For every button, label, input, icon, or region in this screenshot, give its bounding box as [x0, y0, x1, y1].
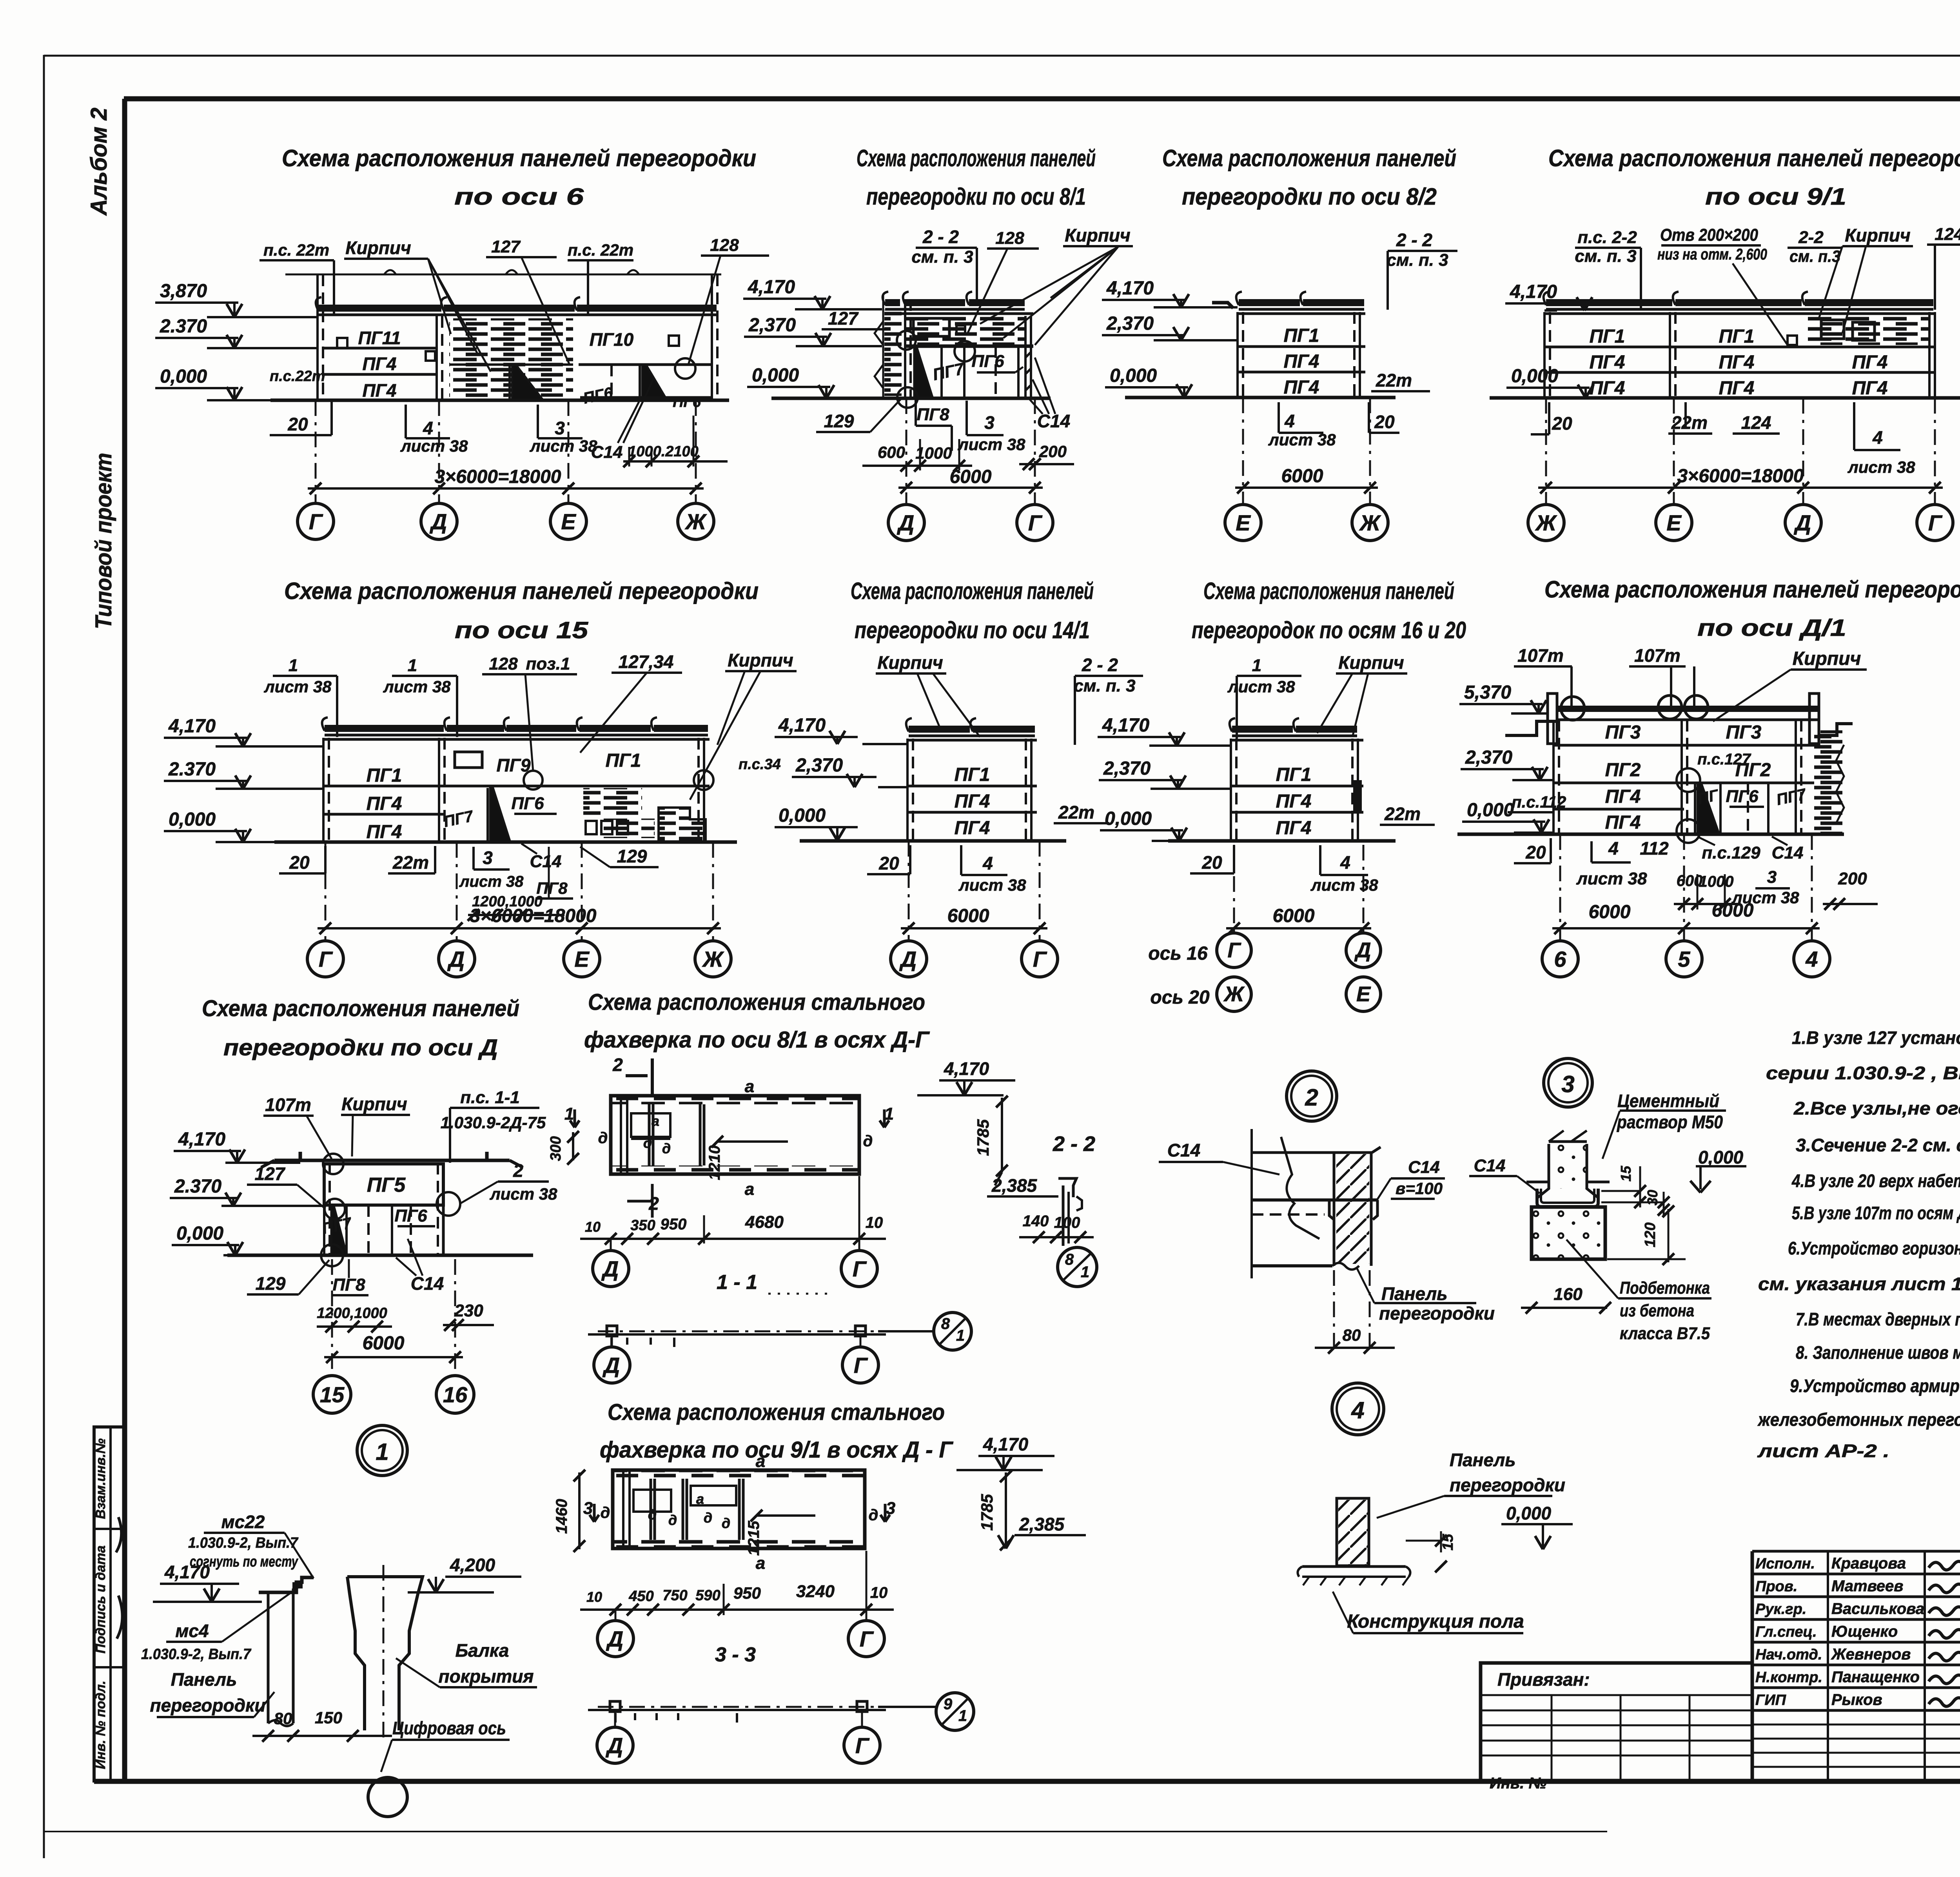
- svg-text:Василькова: Василькова: [1831, 1600, 1924, 1617]
- svg-text:6000: 6000: [1281, 466, 1323, 486]
- S12 axis circle 8/1 (bar): [878, 1312, 971, 1350]
- svg-text:107т: 107т: [1517, 645, 1564, 666]
- svg-text:Панащенко: Панащенко: [1831, 1668, 1920, 1686]
- svg-text:перегородки: перегородки: [1450, 1475, 1565, 1495]
- svg-text:Г: Г: [1028, 510, 1043, 535]
- svg-text:7.В местах дверных проемов по: 7.В местах дверных проемов полки швелера…: [1796, 1309, 1960, 1329]
- S4 wall elevation: [1544, 292, 1935, 399]
- detail 3 drawing (channel on foundation): [1526, 1131, 1610, 1259]
- svg-text:покрытия: покрытия: [439, 1666, 534, 1686]
- svg-text:ПГ4: ПГ4: [363, 354, 397, 374]
- svg-text:80: 80: [1343, 1326, 1361, 1344]
- svg-text:перегородки по оси 8/2: перегородки по оси 8/2: [1182, 183, 1437, 210]
- S3 axis circle Ж: [1352, 398, 1388, 541]
- svg-text:ПГ4: ПГ4: [1852, 378, 1888, 399]
- svg-text:Кирпич: Кирпич: [345, 238, 411, 258]
- schematic S8 title (по осям 16 и 20): [1192, 578, 1466, 643]
- svg-text:ПГ4: ПГ4: [1284, 351, 1319, 372]
- svg-text:2,370: 2,370: [748, 315, 796, 336]
- svg-text:ПГ4: ПГ4: [1852, 352, 1888, 373]
- svg-text:ПГ3: ПГ3: [1605, 722, 1641, 743]
- svg-text:ПГ8: ПГ8: [916, 405, 949, 424]
- svg-text:Д: Д: [606, 1733, 623, 1758]
- beam detail label Цифровая ось: [381, 1718, 510, 1772]
- svg-text:Панель: Панель: [171, 1669, 237, 1690]
- svg-text:Подпись и дата: Подпись и дата: [93, 1545, 108, 1654]
- svg-text:перегородки по оси 14/1: перегородки по оси 14/1: [855, 617, 1090, 643]
- beam detail labels мс22: [188, 1512, 314, 1578]
- S13 right levels 4,170 1785 2,385: [956, 1434, 1086, 1550]
- svg-text:6000: 6000: [947, 906, 989, 926]
- svg-text:1 - 1: 1 - 1: [717, 1271, 757, 1294]
- svg-text:класса В7.5: класса В7.5: [1620, 1324, 1710, 1343]
- svg-text:Схема расположения панелей пер: Схема расположения панелей перегородки: [282, 145, 756, 171]
- schematic S9 title (по оси Д/1): [1544, 576, 1960, 641]
- S2 ground line: [771, 397, 1051, 400]
- S8 axis row ось 16: [1148, 845, 1381, 968]
- svg-text:ПГ4: ПГ4: [367, 822, 402, 842]
- schematic S6 title (по оси 15): [284, 578, 759, 643]
- svg-text:4: 4: [1872, 427, 1883, 448]
- svg-text:2 - 2: 2 - 2: [1082, 655, 1118, 675]
- S3 level marks: [1102, 278, 1238, 398]
- svg-text:590: 590: [695, 1587, 720, 1604]
- svg-text:20: 20: [1525, 842, 1546, 862]
- S2 label 127 with line: [822, 308, 887, 329]
- S9 label п.с.112: [1508, 793, 1566, 812]
- svg-text:4.В узле 20 верх набетонки: 4.В узле 20 верх набетонки на фундамента…: [1791, 1171, 1960, 1191]
- svg-text:20: 20: [1374, 412, 1395, 432]
- svg-text:129: 129: [617, 846, 647, 866]
- svg-text:Д: Д: [601, 1256, 619, 1281]
- S2 axis circle Г: [1017, 398, 1053, 541]
- S1 bottom labels: [270, 378, 728, 467]
- svg-text:поз.1: поз.1: [526, 654, 570, 673]
- svg-text:0,000: 0,000: [1110, 365, 1157, 386]
- S4 level marks: [1505, 281, 1593, 398]
- svg-text:д: д: [662, 1140, 671, 1156]
- svg-text:450: 450: [628, 1588, 653, 1605]
- svg-text:5: 5: [1678, 947, 1690, 971]
- S12 bottom dims: [580, 1176, 886, 1245]
- svg-text:мс4: мс4: [175, 1621, 209, 1641]
- beam detail level 4,170: [153, 1562, 262, 1602]
- svg-text:Схема расположения стального: Схема расположения стального: [588, 989, 925, 1015]
- S12 section bar 1-1: [588, 1326, 886, 1347]
- S6 level marks: [164, 716, 323, 842]
- svg-text:фахверка по оси 9/1 в осях Д: фахверка по оси 9/1 в осях Д - Г: [600, 1437, 953, 1463]
- S1 wall elevation: [270, 270, 721, 410]
- schematic S1 title (по оси 6): [282, 145, 756, 210]
- svg-text:Г: Г: [1928, 510, 1943, 535]
- S13 axis circle Г (plan): [848, 1610, 884, 1657]
- svg-text:Пров.: Пров.: [1755, 1578, 1797, 1595]
- svg-text:1460: 1460: [553, 1499, 570, 1534]
- schematic S13 title (фахверк по оси 9/1): [600, 1400, 953, 1463]
- svg-text:3: 3: [1561, 1071, 1574, 1097]
- S12 axis circle Г (bar): [842, 1336, 878, 1383]
- svg-text:лист АР-2 .: лист АР-2 .: [1757, 1441, 1889, 1461]
- svg-text:0,000: 0,000: [1467, 800, 1514, 821]
- svg-text:см. п. 3: см. п. 3: [1074, 676, 1135, 695]
- S4 bottom labels: [1531, 402, 1915, 476]
- S3 label 22т: [1371, 370, 1430, 391]
- svg-text:0,000: 0,000: [1511, 366, 1558, 387]
- svg-text:С14: С14: [1408, 1158, 1440, 1177]
- svg-text:Е: Е: [1356, 982, 1371, 1006]
- svg-text:20: 20: [1201, 852, 1222, 873]
- S4 axis circle Е: [1656, 398, 1692, 541]
- svg-text:0,000: 0,000: [176, 1223, 223, 1244]
- detail 3 label С14: [1469, 1156, 1540, 1193]
- svg-text:д: д: [601, 1504, 610, 1521]
- svg-text:Ж: Ж: [1359, 510, 1381, 535]
- svg-text:ПГ6: ПГ6: [394, 1206, 427, 1225]
- svg-text:3: 3: [555, 418, 565, 438]
- svg-text:1: 1: [289, 656, 298, 675]
- S3 bottom labels: [1268, 402, 1399, 449]
- svg-text:Д: Д: [1354, 938, 1371, 962]
- svg-text:Ж: Ж: [702, 947, 724, 971]
- svg-text:Схема расположения панелей: Схема расположения панелей: [857, 145, 1096, 171]
- svg-text:ПГ3: ПГ3: [1726, 722, 1762, 743]
- svg-text:лист 38: лист 38: [400, 437, 468, 455]
- svg-text:350: 350: [630, 1217, 655, 1234]
- svg-text:Кирпич: Кирпич: [728, 650, 793, 670]
- svg-text:Альбом 2: Альбом 2: [86, 107, 112, 216]
- S1 level marks: [155, 281, 318, 400]
- title block link box Привязан: [1481, 1663, 1752, 1792]
- svg-text:Г: Г: [1033, 947, 1047, 971]
- svg-text:10: 10: [585, 1219, 601, 1235]
- svg-text:3: 3: [886, 1499, 895, 1518]
- svg-text:д: д: [643, 1135, 652, 1151]
- svg-text:низ на отм. 2,600: низ на отм. 2,600: [1657, 246, 1767, 263]
- section 2-2 profile: [1058, 1178, 1082, 1246]
- detail 4 level 0,000 and dim 15: [1406, 1503, 1573, 1572]
- S6 axis circle Ж: [695, 842, 731, 977]
- section 2-2 dims 140 100: [1019, 1213, 1094, 1243]
- svg-text:Кирпич: Кирпич: [1845, 225, 1911, 245]
- schematic S7 title (по оси 14/1): [851, 578, 1094, 643]
- S13 axis circle Г (bar): [844, 1712, 880, 1763]
- svg-text:Матвеев: Матвеев: [1831, 1577, 1903, 1595]
- svg-text:1000.2100: 1000.2100: [628, 443, 699, 460]
- svg-text:0,000: 0,000: [169, 809, 216, 830]
- svg-text:Схема расположения панелей: Схема расположения панелей: [202, 996, 519, 1021]
- svg-text:3: 3: [1767, 868, 1777, 887]
- svg-text:Рыков: Рыков: [1831, 1691, 1882, 1708]
- svg-text:Е: Е: [1236, 510, 1251, 535]
- svg-text:128: 128: [995, 229, 1024, 248]
- svg-text:2.370: 2.370: [160, 316, 207, 337]
- svg-text:3 - 3: 3 - 3: [715, 1643, 756, 1666]
- svg-text:1: 1: [956, 1327, 965, 1344]
- svg-text:д: д: [668, 1512, 677, 1528]
- svg-text:ось 20: ось 20: [1150, 987, 1210, 1008]
- svg-text:6000: 6000: [363, 1333, 405, 1354]
- S1 axis circle Г: [298, 400, 334, 539]
- svg-text:1: 1: [1252, 656, 1261, 675]
- detail 4 label Панель перегородки: [1377, 1450, 1565, 1518]
- svg-text:в=100: в=100: [1396, 1179, 1443, 1198]
- svg-text:лист 38: лист 38: [1576, 869, 1647, 888]
- svg-text:1.В узле 127 установить соедин: 1.В узле 127 установить соединительные М…: [1792, 1027, 1960, 1048]
- svg-text:С14: С14: [1474, 1156, 1506, 1175]
- svg-text:1785: 1785: [978, 1494, 996, 1531]
- S12 axis circle Г (plan): [841, 1239, 877, 1287]
- svg-text:0,000: 0,000: [160, 366, 207, 387]
- svg-text:1200,1000: 1200,1000: [317, 1305, 387, 1322]
- svg-text:Гл.спец.: Гл.спец.: [1755, 1624, 1817, 1640]
- svg-text:0,000: 0,000: [752, 365, 799, 386]
- svg-text:Конструкция пола: Конструкция пола: [1347, 1611, 1524, 1632]
- S7 bottom labels: [867, 845, 1026, 894]
- svg-text:a: a: [756, 1452, 765, 1471]
- svg-text:Инв. №: Инв. №: [1490, 1775, 1546, 1792]
- S4 ground line: [1490, 396, 1960, 400]
- S8 top labels: [1227, 652, 1407, 739]
- svg-text:Ж: Ж: [684, 509, 707, 534]
- svg-text:6000: 6000: [1589, 902, 1631, 922]
- schematic S11 title (по оси Д): [202, 996, 519, 1060]
- svg-text:22т: 22т: [1671, 412, 1708, 433]
- svg-text:1210: 1210: [706, 1145, 723, 1180]
- S6 ground line: [274, 840, 737, 844]
- svg-text:д: д: [722, 1515, 730, 1531]
- svg-text:ПГ6: ПГ6: [511, 794, 544, 813]
- svg-text:Привязан:: Привязан:: [1497, 1669, 1590, 1690]
- detail node 1 marker (double circle): [357, 1425, 407, 1476]
- S6 wall elevation: [322, 717, 713, 842]
- svg-text:Цифровая ось: Цифровая ось: [392, 1718, 506, 1738]
- svg-text:ПГ4: ПГ4: [1276, 791, 1312, 812]
- svg-text:ПГ4: ПГ4: [1605, 786, 1641, 807]
- svg-text:Кравцова: Кравцова: [1831, 1555, 1906, 1572]
- svg-text:3.Сечение 2-2 см. серию 1.030.: 3.Сечение 2-2 см. серию 1.030.9-2, Вып.6…: [1796, 1135, 1960, 1155]
- svg-text:127: 127: [255, 1164, 286, 1184]
- svg-text:ПГ4: ПГ4: [367, 793, 402, 814]
- S9 wall elevation: [1505, 693, 1853, 843]
- svg-text:112: 112: [1640, 838, 1669, 859]
- S11 axis circle 16: [436, 1259, 474, 1413]
- svg-text:127,34: 127,34: [619, 652, 674, 672]
- svg-text:3×6000=18000: 3×6000=18000: [434, 467, 561, 487]
- svg-text:ПГ2: ПГ2: [1605, 760, 1641, 781]
- S13 section bar 3-3: [588, 1701, 886, 1723]
- svg-text:4680: 4680: [745, 1213, 784, 1232]
- svg-text:лист 38: лист 38: [958, 876, 1027, 894]
- S13 axis circle 9/1 (bar): [878, 1693, 974, 1730]
- svg-text:1: 1: [958, 1707, 967, 1725]
- svg-text:Панель: Панель: [1450, 1450, 1516, 1470]
- svg-text:1785: 1785: [974, 1119, 992, 1156]
- S4 bay dimension 3x6000=18000: [1538, 466, 1943, 494]
- svg-text:3×6000=18000: 3×6000=18000: [470, 906, 596, 926]
- svg-text:ПГ4: ПГ4: [1590, 378, 1625, 399]
- svg-text:п.с. 22т: п.с. 22т: [263, 241, 329, 259]
- svg-text:22т: 22т: [1376, 370, 1412, 390]
- beam detail bottom dims 80 150: [252, 1708, 392, 1742]
- detail 4 label Конструкция пола: [1333, 1592, 1524, 1633]
- svg-text:п.с. 2-2: п.с. 2-2: [1577, 228, 1637, 247]
- axis circle 8/1 below section 2-2: [1058, 1247, 1097, 1287]
- S12 axis circle Д (plan): [593, 1239, 629, 1287]
- svg-text:5,370: 5,370: [1464, 682, 1511, 703]
- svg-text:Е: Е: [1666, 510, 1682, 535]
- svg-text:Схема расположения панелей пер: Схема расположения панелей перегородки: [284, 578, 759, 604]
- svg-text:120: 120: [1642, 1222, 1659, 1247]
- svg-text:15: 15: [1440, 1534, 1456, 1550]
- svg-text:д: д: [598, 1129, 608, 1147]
- svg-text:Д: Д: [1794, 510, 1811, 535]
- svg-text:2.370: 2.370: [174, 1176, 221, 1197]
- S2 level marks: [743, 277, 882, 398]
- S3 top label 2-2 см.п.3: [1387, 230, 1457, 310]
- svg-text:перегородки: перегородки: [1379, 1303, 1495, 1323]
- svg-text:Г: Г: [319, 947, 333, 971]
- svg-text:железобетонных перегородок: железобетонных перегородок смотри серию …: [1757, 1409, 1960, 1430]
- S11 top labels: [263, 1088, 546, 1163]
- detail 2 dim 80: [1315, 1270, 1395, 1354]
- svg-text:2: 2: [513, 1160, 523, 1181]
- svg-text:1215: 1215: [745, 1521, 762, 1556]
- svg-text:127: 127: [828, 308, 859, 329]
- S2 bay dimension 6000: [898, 467, 1043, 494]
- svg-text:3: 3: [984, 412, 995, 433]
- svg-text:ось 16: ось 16: [1148, 943, 1208, 964]
- svg-text:ПГ1: ПГ1: [1719, 326, 1755, 347]
- svg-text:6000: 6000: [950, 467, 992, 487]
- S4 axis circle Г: [1917, 398, 1953, 541]
- svg-text:ПГ4: ПГ4: [1284, 377, 1319, 398]
- svg-text:Жевнеров: Жевнеров: [1831, 1646, 1911, 1663]
- S8 bay dimension 6000: [1226, 906, 1371, 934]
- S12 section mark 2 (bottom): [627, 1184, 659, 1218]
- svg-text:1: 1: [376, 1439, 388, 1465]
- svg-text:фахверка по оси 8/1 в осях Д-: фахверка по оси 8/1 в осях Д-Г: [584, 1027, 930, 1053]
- schematic S2 title (по оси 8/1): [857, 145, 1096, 210]
- svg-text:д: д: [863, 1133, 873, 1150]
- S8 bottom labels: [1190, 845, 1378, 894]
- svg-text:п.с.34: п.с.34: [739, 756, 781, 773]
- svg-text:6: 6: [1554, 947, 1566, 971]
- beam detail label Панель перегородки: [150, 1669, 274, 1717]
- S9 axis circle 5: [1666, 834, 1702, 977]
- svg-text:4,170: 4,170: [168, 716, 216, 737]
- svg-text:2,370: 2,370: [1465, 747, 1512, 768]
- svg-text:0,000: 0,000: [779, 805, 826, 826]
- svg-text:4,170: 4,170: [1102, 715, 1149, 736]
- S13 axis circle Д (bar): [597, 1712, 633, 1763]
- svg-text:Д: Д: [897, 510, 914, 535]
- S1 ground line: [270, 399, 729, 402]
- svg-text:4,170: 4,170: [983, 1434, 1029, 1454]
- svg-text:950: 950: [661, 1216, 687, 1233]
- svg-text:Г: Г: [854, 1353, 868, 1378]
- S1 axis circle Ж: [678, 400, 714, 539]
- svg-text:Взам.инв.№: Взам.инв.№: [93, 1438, 108, 1519]
- svg-text:перегородки по оси Д: перегородки по оси Д: [223, 1035, 498, 1060]
- svg-text:8. Заполнение швов между па: 8. Заполнение швов между панелями перего…: [1796, 1342, 1960, 1363]
- svg-text:a: a: [696, 1491, 704, 1507]
- svg-text:2.Все узлы,не оговоренные на: 2.Все узлы,не оговоренные на схемах, при…: [1793, 1098, 1960, 1118]
- svg-text:15: 15: [1618, 1165, 1634, 1182]
- svg-text:1: 1: [1081, 1263, 1089, 1281]
- S6 axis circle Г: [307, 842, 343, 977]
- S13 bottom dims: [580, 1551, 894, 1616]
- svg-text:ПГ6: ПГ6: [971, 352, 1004, 371]
- S12 view label 1-1: [717, 1271, 827, 1294]
- svg-text:Кирпич: Кирпич: [877, 652, 943, 673]
- svg-text:20: 20: [289, 852, 310, 873]
- title block personnel table: [1752, 1551, 1960, 1781]
- svg-text:2,385: 2,385: [1019, 1514, 1065, 1534]
- S13 plan strip: [601, 1452, 878, 1573]
- svg-text:140: 140: [1023, 1213, 1049, 1230]
- svg-text:5.В узле 107т по осям Д/1,: 5.В узле 107т по осям Д/1, Е/1 вместо со…: [1792, 1203, 1960, 1223]
- svg-text:20: 20: [878, 853, 899, 873]
- detail 3 label Подбетонка: [1566, 1240, 1711, 1343]
- S6 axis circle Е: [564, 842, 600, 977]
- svg-text:2: 2: [648, 1193, 659, 1214]
- svg-text:107т: 107т: [1634, 645, 1681, 666]
- svg-text:a: a: [745, 1180, 754, 1199]
- svg-text:4,170: 4,170: [944, 1058, 989, 1079]
- S9 bay dimensions 6000 6000: [1552, 900, 1820, 934]
- beam detail level 4,200: [408, 1555, 521, 1592]
- svg-text:200: 200: [1838, 869, 1867, 888]
- svg-text:4: 4: [423, 418, 433, 438]
- vertical margin text Альбом 2: [86, 107, 112, 216]
- svg-text:ПГ4: ПГ4: [363, 380, 397, 401]
- svg-text:лист 38: лист 38: [490, 1185, 558, 1203]
- svg-text:Г: Г: [860, 1626, 874, 1651]
- S8 ground line: [1168, 839, 1396, 843]
- svg-text:Кирпич: Кирпич: [1793, 648, 1861, 669]
- svg-text:Е: Е: [574, 947, 590, 971]
- svg-text:п.с.22т: п.с.22т: [270, 368, 325, 385]
- svg-text:Схема расположения панелей: Схема расположения панелей: [1162, 145, 1456, 171]
- S12 plan strip: [598, 1077, 873, 1199]
- svg-text:4: 4: [1340, 852, 1350, 873]
- svg-text:перегородок по осям 16 и 20: перегородок по осям 16 и 20: [1192, 617, 1466, 643]
- svg-text:1: 1: [408, 656, 417, 675]
- svg-text:ПГ11: ПГ11: [358, 328, 401, 348]
- detail 2 label Панель перегородки: [1356, 1267, 1495, 1323]
- S8 level marks: [1098, 715, 1231, 841]
- S11 axis circle 15: [313, 1259, 351, 1413]
- S4 top labels: [1575, 225, 1960, 345]
- vertical margin text Типовой проект: [91, 453, 116, 629]
- svg-text:раствор М50: раствор М50: [1616, 1112, 1723, 1132]
- schematic S4 title (по оси 9/1): [1548, 145, 1960, 210]
- svg-text:Балка: Балка: [456, 1640, 509, 1661]
- svg-text:см. п. 3: см. п. 3: [1387, 251, 1448, 270]
- svg-text:Схема расположения панелей: Схема расположения панелей: [1203, 578, 1454, 604]
- S2 axis circle Д: [888, 398, 924, 541]
- svg-text:ПГ10: ПГ10: [590, 329, 634, 350]
- svg-text:4,170: 4,170: [178, 1129, 225, 1150]
- svg-text:2,370: 2,370: [1103, 758, 1151, 779]
- S8 axis row ось 20: [1150, 977, 1381, 1011]
- svg-text:Г: Г: [309, 509, 323, 534]
- beam detail drawing (panel and балка покрытия): [259, 1565, 423, 1744]
- svg-text:см. п. 3: см. п. 3: [1575, 247, 1636, 266]
- S7 ground line: [800, 839, 1066, 843]
- svg-text:ПГ1: ПГ1: [1590, 326, 1625, 347]
- svg-text:ПГ4: ПГ4: [1719, 352, 1755, 373]
